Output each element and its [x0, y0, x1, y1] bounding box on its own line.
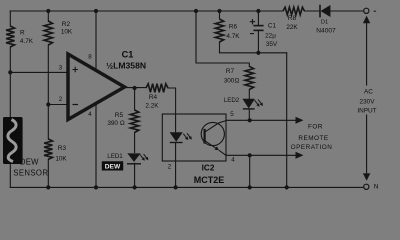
junction top rail / R7 feed — [194, 9, 198, 13]
svg-text:N4007: N4007 — [316, 28, 336, 35]
svg-text:LED2: LED2 — [224, 97, 240, 104]
wire R2 to node pin2 — [47, 45, 49, 105]
wire R1 bottom lead to dew sensor — [9, 47, 11, 117]
opto internal LED — [170, 114, 192, 143]
junction bottom rail / LED1 — [133, 185, 137, 189]
junction top rail / R2 — [46, 9, 50, 13]
wire R8 to D1 — [305, 10, 321, 12]
wire R6 top lead — [219, 11, 221, 19]
svg-text:2: 2 — [168, 164, 172, 171]
wire R6 bottom to C1 negative node — [220, 42, 287, 53]
svg-text:½LM358N: ½LM358N — [106, 61, 146, 71]
svg-text:DEW: DEW — [20, 158, 39, 167]
wire LED1 to bottom rail — [134, 163, 136, 187]
arrow AC up — [363, 16, 370, 23]
junction top rail / C1 — [256, 9, 260, 13]
resistor R5 390 ohm — [130, 110, 138, 133]
optocoupler IC2 MCT2E body — [162, 114, 226, 161]
junction bottom rail / opto pin 2 — [174, 185, 178, 189]
svg-text:R8: R8 — [288, 15, 297, 22]
junction bottom rail / return column — [285, 185, 289, 189]
junction top rail / R6 — [217, 9, 221, 13]
svg-text:4.7K: 4.7K — [20, 38, 34, 45]
arrow remote tap lower — [296, 152, 304, 159]
svg-text:4: 4 — [231, 157, 235, 164]
junction top rail / pin 8 — [94, 9, 98, 13]
svg-text:C1: C1 — [122, 50, 134, 60]
op-amp minus sign — [73, 104, 79, 106]
svg-text:4: 4 — [88, 111, 92, 118]
resistor R2 10K — [44, 21, 52, 45]
wire op-amp pin 8 supply — [95, 11, 97, 71]
wire pin 4 node to bottom rail — [249, 155, 251, 187]
dew sensor element — [3, 117, 23, 164]
svg-text:2: 2 — [59, 96, 63, 103]
resistor R4 2.2K — [146, 84, 168, 93]
junction pin 5 node — [248, 118, 252, 122]
svg-text:35V: 35V — [266, 41, 278, 48]
svg-text:R5: R5 — [115, 112, 124, 119]
wire AC live drop lower — [366, 115, 368, 174]
wire C1 negative lead — [257, 31, 259, 53]
svg-text:MCT2E: MCT2E — [194, 175, 225, 185]
wire non-inverting input pin 3 — [10, 71, 68, 73]
wire optocoupler collector pin 5 to remote tap — [226, 119, 297, 121]
svg-text:FOR: FOR — [308, 124, 323, 131]
junction node pin 2 — [46, 102, 50, 106]
wire optocoupler emitter pin 4 to remote tap — [226, 154, 297, 156]
wire output node down to R5 — [134, 88, 136, 110]
junction node pin 3 — [8, 70, 12, 74]
diode D1 N4007 — [320, 5, 330, 18]
svg-text:10K: 10K — [55, 156, 67, 163]
label DEW tag — [102, 161, 123, 170]
svg-text:10K: 10K — [61, 29, 73, 36]
svg-text:22K: 22K — [286, 24, 298, 31]
junction C1 negative node — [256, 51, 260, 55]
wire inverting input pin 2 — [48, 104, 68, 106]
svg-text:LED1: LED1 — [107, 153, 123, 160]
svg-text:R3: R3 — [58, 145, 67, 152]
terminal L live — [364, 8, 369, 13]
wire R3 to bottom rail — [47, 159, 49, 187]
svg-text:R7: R7 — [226, 68, 235, 75]
op-amp IC1 half LM358N — [68, 54, 125, 120]
svg-text:5: 5 — [230, 111, 234, 118]
svg-text:D1: D1 — [321, 19, 328, 25]
wire op-amp output node — [123, 87, 146, 89]
resistor R1 4.7K — [6, 26, 14, 47]
svg-text:22µ: 22µ — [265, 33, 276, 40]
wire C1 positive lead — [257, 11, 259, 25]
opto collector lead to pin 5 — [205, 121, 226, 133]
svg-text:R2: R2 — [62, 21, 71, 28]
wire LED2 to pin 5 node — [248, 109, 250, 120]
arrow remote tap upper — [296, 117, 304, 124]
svg-text:REMOTE: REMOTE — [298, 135, 328, 142]
LED1 DEW indicator — [127, 153, 148, 163]
svg-text:OPERATION: OPERATION — [291, 144, 333, 151]
wire AC live drop upper — [366, 23, 368, 85]
svg-text:INPUT: INPUT — [357, 108, 376, 115]
terminal N neutral — [364, 184, 369, 189]
svg-text:8: 8 — [88, 54, 92, 61]
junction bottom rail / emitter — [248, 185, 252, 189]
wire top supply rail — [10, 10, 283, 12]
svg-text:3: 3 — [59, 65, 63, 72]
resistor R7 300 ohm — [245, 66, 254, 89]
capacitor C1 22uF 35V — [250, 19, 264, 34]
wire D1 to L terminal — [331, 10, 364, 12]
svg-text:N: N — [374, 184, 379, 191]
wire bottom neutral rail — [10, 186, 363, 188]
resistor R8 22K — [283, 7, 305, 15]
wire node to R3 — [47, 105, 49, 140]
wire R4 to optocoupler anode — [168, 88, 176, 114]
svg-text:DEW: DEW — [105, 164, 121, 171]
junction op-amp output node — [133, 86, 137, 90]
junction bottom rail / pin 4 — [94, 185, 98, 189]
resistor R3 10K — [44, 139, 52, 159]
wire R7 to LED2 — [248, 90, 250, 99]
svg-text:R: R — [20, 30, 25, 37]
opto phototransistor Q — [201, 122, 224, 145]
svg-text:C1: C1 — [268, 23, 277, 30]
resistor R6 4.7K — [215, 19, 223, 42]
wire right return column — [286, 53, 288, 188]
junction bottom rail / R3 — [46, 185, 50, 189]
svg-text:2.2K: 2.2K — [145, 103, 159, 110]
wire top rail to R7 feed — [196, 11, 249, 66]
svg-text:390 Ω: 390 Ω — [107, 120, 124, 127]
wire R5 to LED1 — [134, 133, 136, 153]
arrow AC down — [363, 173, 370, 180]
wire R2 top lead — [47, 11, 49, 21]
svg-text:R4: R4 — [149, 94, 158, 101]
svg-text:4.7K: 4.7K — [226, 33, 240, 40]
svg-text:300Ω: 300Ω — [224, 77, 240, 84]
opto emitter lead with arrow to pin 4 — [205, 141, 226, 156]
wire dew sensor to bottom rail — [9, 164, 11, 187]
svg-text:AC: AC — [364, 88, 373, 95]
junction pin 4 node — [248, 153, 252, 157]
wire op-amp pin 4 to ground rail — [95, 103, 97, 188]
op-amp plus sign — [73, 67, 79, 72]
LED2 indicator — [242, 99, 263, 109]
svg-text:SENSOR: SENSOR — [13, 168, 48, 177]
svg-text:230V: 230V — [360, 99, 376, 106]
wire optocoupler LED cathode pin 2 to bottom rail — [175, 144, 177, 188]
wire R1 top lead — [9, 11, 11, 26]
svg-text:R6: R6 — [229, 23, 238, 30]
svg-text:IC2: IC2 — [202, 164, 215, 173]
